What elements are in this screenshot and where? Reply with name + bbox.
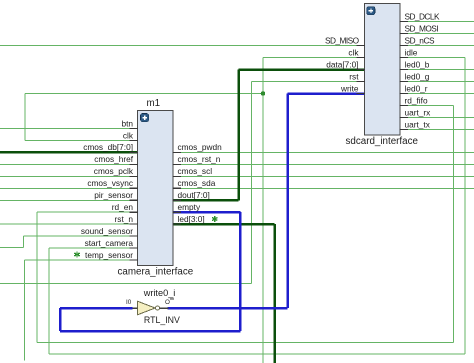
- wire start_camera horizontal: [49, 247, 138, 249]
- inverter RTL_INV write0_i: [138, 301, 160, 314]
- svg-text:cmos_rst_n: cmos_rst_n: [178, 154, 221, 164]
- wire idle horizontal: [400, 57, 465, 59]
- camera_interface block m1 body: [138, 111, 174, 266]
- svg-text:SD_nCS: SD_nCS: [405, 35, 435, 45]
- blue selected nets: [60, 94, 365, 332]
- wire cmos_pclk: [0, 175, 138, 177]
- svg-text:O: O: [165, 299, 170, 306]
- camera left pin labels: [81, 118, 134, 259]
- wire clk to camera clk pin: [25, 140, 138, 142]
- wire rst_n: [0, 223, 138, 225]
- wire led0_b: [400, 69, 474, 71]
- svg-text:RTL_INV: RTL_INV: [144, 315, 180, 325]
- wire rd_fifo rail bottom: [37, 342, 454, 344]
- svg-text:SD_MISO: SD_MISO: [325, 35, 360, 45]
- svg-text:rst: rst: [349, 71, 359, 81]
- pin stubs sdcard right: [400, 21, 409, 23]
- svg-text:SD_DCLK: SD_DCLK: [405, 11, 440, 21]
- bus dout vertical: [237, 70, 240, 201]
- pin stubs camera left: [130, 22, 409, 261]
- wire btn: [0, 128, 138, 130]
- wire SD_nCS: [400, 45, 474, 47]
- svg-text:idle: idle: [405, 47, 418, 57]
- bus data[7:0] horizontal: [239, 68, 365, 71]
- bus led[3:0] vertical: [273, 224, 276, 363]
- wire SD_DCLK: [400, 21, 474, 23]
- camera right pin labels: [178, 142, 223, 224]
- wire uart_tx: [400, 129, 474, 131]
- wire SD_MISO net: [0, 45, 365, 47]
- svg-text:rd_fifo: rd_fifo: [405, 95, 428, 105]
- wire led0_r: [400, 93, 474, 95]
- wire idle rail bottom: [49, 353, 465, 355]
- wire temp_sensor horizontal: [25, 259, 138, 261]
- wire write0 vertical: [286, 94, 289, 309]
- svg-text:rst_n: rst_n: [115, 214, 134, 224]
- svg-text:m1: m1: [147, 98, 161, 109]
- wire empty loop left vertical: [59, 308, 62, 331]
- wire cmos_scl: [173, 175, 474, 177]
- svg-text:write: write: [340, 83, 359, 93]
- wire SD_MOSI: [400, 33, 474, 35]
- svg-text:dout[7:0]: dout[7:0]: [178, 190, 210, 200]
- svg-text:clk: clk: [123, 130, 134, 140]
- svg-text:camera_interface: camera_interface: [118, 267, 194, 278]
- inverter output stub: [159, 307, 168, 309]
- wire start_camera vertical: [48, 248, 50, 354]
- bus cmos_db[7:0]: [0, 151, 138, 154]
- svg-text:cmos_scl: cmos_scl: [178, 166, 213, 176]
- svg-text:temp_sensor: temp_sensor: [85, 250, 133, 260]
- svg-text:cmos_pwdn: cmos_pwdn: [178, 142, 223, 152]
- wire pir_sensor: [0, 199, 138, 201]
- svg-text:data[7:0]: data[7:0]: [326, 59, 358, 69]
- wire sound_sensor horizontal: [24, 235, 138, 237]
- wire empty loop bottom: [60, 330, 240, 333]
- expand icon sdcard: [367, 7, 375, 15]
- svg-text:sdcard_interface: sdcard_interface: [346, 136, 419, 147]
- wire rst entry horizontal: [0, 283, 252, 285]
- pin stubs sdcard left: [357, 45, 366, 47]
- wire rst vertical: [251, 82, 253, 284]
- svg-text:uart_tx: uart_tx: [405, 119, 431, 129]
- wire rd_en horizontal: [37, 211, 138, 213]
- bus dout[7:0] horizontal: [173, 199, 239, 202]
- svg-text:empty: empty: [178, 202, 201, 212]
- svg-text:btn: btn: [121, 118, 133, 128]
- wire clk branch vertical: [24, 94, 26, 141]
- marker asterisk temp_sensor: [74, 252, 79, 258]
- wire clk branch horizontal: [25, 93, 263, 95]
- sdcard left pin labels: [325, 35, 360, 93]
- svg-text:write0_i: write0_i: [143, 288, 176, 298]
- svg-text:cmos_pclk: cmos_pclk: [94, 166, 134, 176]
- bus led[3:0] horizontal: [173, 223, 275, 226]
- svg-text:I0: I0: [126, 299, 132, 306]
- sdcard_interface block body: [365, 4, 401, 136]
- wire cmos_href: [0, 163, 138, 165]
- wire clk vertical trunk: [262, 58, 264, 363]
- junction dot clk net: [261, 91, 266, 96]
- wire empty vertical: [239, 212, 242, 331]
- svg-text:led0_g: led0_g: [405, 71, 430, 81]
- wire led0_g: [400, 81, 474, 83]
- pin stubs camera right: [173, 151, 182, 153]
- wire empty to inverter input: [60, 307, 133, 310]
- wire sound_sensor entry: [0, 246, 24, 248]
- wire rd_fifo vertical: [453, 106, 455, 343]
- svg-text:led0_r: led0_r: [405, 83, 428, 93]
- wire cmos_sda: [173, 187, 474, 189]
- expand icon camera: [141, 114, 149, 122]
- svg-text:cmos_db[7:0]: cmos_db[7:0]: [83, 142, 133, 152]
- svg-text:pir_sensor: pir_sensor: [94, 190, 133, 200]
- svg-text:clk: clk: [348, 47, 359, 57]
- svg-text:start_camera: start_camera: [85, 238, 134, 248]
- wire empty horizontal: [173, 211, 240, 214]
- wire cmos_rst_n: [173, 163, 474, 165]
- bus wires dark green: [0, 70, 365, 363]
- wire write0 from inverter output: [168, 307, 288, 310]
- wire uart_rx: [400, 117, 474, 119]
- svg-text:cmos_vsync: cmos_vsync: [87, 178, 133, 188]
- inverter input stub: [133, 307, 138, 309]
- svg-text:cmos_href: cmos_href: [94, 154, 133, 164]
- wire idle vertical: [464, 58, 466, 355]
- svg-text:sound_sensor: sound_sensor: [81, 226, 133, 236]
- svg-text:led[3:0]: led[3:0]: [178, 214, 205, 224]
- wire rd_en vertical: [36, 212, 38, 342]
- svg-text:led0_b: led0_b: [405, 59, 430, 69]
- svg-text:uart_rx: uart_rx: [405, 107, 432, 117]
- wire rst to sdcard rst pin: [252, 81, 365, 83]
- pin label stub O overline: [170, 298, 174, 300]
- wire clk horizontal to sdcard clk pin: [263, 57, 365, 59]
- marker asterisk led[3:0]: [212, 216, 217, 222]
- sdcard right pin labels: [405, 11, 440, 129]
- svg-text:rd_en: rd_en: [112, 202, 134, 212]
- svg-text:SD_MOSI: SD_MOSI: [405, 23, 439, 33]
- wire rd_fifo horizontal: [400, 105, 454, 107]
- wire write0 to write pin: [288, 92, 365, 95]
- wire sound_sensor jog vertical: [23, 236, 25, 247]
- wire cmos_pwdn: [173, 151, 474, 153]
- wire temp_sensor vertical: [24, 260, 26, 361]
- wire cmos_vsync: [0, 187, 138, 189]
- svg-text:cmos_sda: cmos_sda: [178, 178, 216, 188]
